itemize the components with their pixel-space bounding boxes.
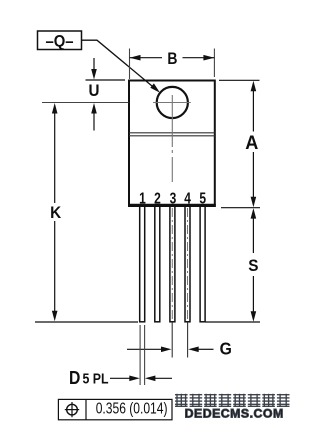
mounting hole <box>157 87 188 118</box>
pin 1 lead <box>140 206 145 322</box>
extension line between A and S (at body bottom) <box>221 207 260 209</box>
watermark chinese characters (drawn as glyph blocks) <box>175 394 290 407</box>
svg-text:G: G <box>220 339 232 359</box>
svg-text:K: K <box>50 203 61 222</box>
tab separation line lower <box>129 135 215 137</box>
pin number 2 <box>154 189 161 207</box>
dimension G line left segment with right arrow <box>127 347 172 353</box>
dimension A line with arrows <box>251 81 257 208</box>
pin 3 lead <box>170 206 175 322</box>
dimension G line right segment with left arrow <box>188 347 213 353</box>
pin 4 lead <box>185 206 190 322</box>
svg-text:U: U <box>89 82 100 100</box>
pin 3 centerline (inside lead, below body) <box>171 208 173 321</box>
dimension A label <box>245 131 258 153</box>
pin 4 centerline (inside lead, below body) <box>187 208 189 321</box>
pin number 5 <box>199 189 206 207</box>
true position symbol <box>65 402 79 417</box>
hole vertical centerline (dash-dot down through body) <box>171 95 173 182</box>
dimension B extension line right <box>213 49 215 78</box>
dimension K line lower segment with down arrow <box>52 221 58 321</box>
dimension U label <box>89 82 100 100</box>
dimension B label <box>167 50 177 69</box>
dimension D extension line left (pin1 left edge) <box>139 325 141 385</box>
dimension B extension line left <box>129 49 131 80</box>
svg-text:5: 5 <box>199 189 206 207</box>
svg-text:DEDECMS.COM: DEDECMS.COM <box>185 407 284 421</box>
pin number 1 <box>139 189 146 207</box>
dimension B line and arrows <box>130 55 215 61</box>
dimension S label <box>248 256 258 275</box>
pin number 3 <box>170 189 177 207</box>
svg-text:A: A <box>245 131 258 153</box>
dimension D line with arrows <box>110 376 172 382</box>
datum Q label box <box>38 31 82 51</box>
svg-text:D: D <box>69 367 80 389</box>
dimension S line with arrows <box>251 208 257 322</box>
svg-text:–Q–: –Q– <box>45 33 73 51</box>
hole center extension line (left, for U and K) <box>42 102 129 104</box>
dimension U lower arrow (up) <box>91 103 97 131</box>
package body outline <box>128 81 216 207</box>
feature control frame box <box>58 399 172 419</box>
svg-text:5 PL: 5 PL <box>83 371 109 387</box>
svg-text:0.356 (0.014): 0.356 (0.014) <box>96 399 168 417</box>
svg-text:1: 1 <box>139 189 146 207</box>
pin 4 centerline extension below tips <box>187 322 189 358</box>
dimension U top tick line <box>86 79 126 81</box>
svg-text:3: 3 <box>170 189 177 207</box>
dimension G label <box>220 339 232 359</box>
svg-text:2: 2 <box>154 189 161 207</box>
dimension K line upper segment with up arrow <box>52 103 58 203</box>
watermark dedecms.com text <box>185 407 284 421</box>
dimension A extension line top <box>219 79 260 81</box>
pin tips extension line right segment <box>206 321 261 323</box>
hole horizontal crosshair <box>153 102 191 104</box>
pin 2 lead <box>155 206 160 322</box>
tab separation line upper <box>129 132 215 134</box>
pin 5 lead <box>200 206 205 322</box>
dimension K label <box>50 203 61 222</box>
datum Q leader line with arrowhead to hole <box>82 40 161 92</box>
svg-text:4: 4 <box>184 189 191 207</box>
svg-text:S: S <box>248 256 258 275</box>
tolerance value text <box>96 399 168 417</box>
pin 3 centerline extension below tips <box>171 322 173 358</box>
dimension D extension line right (pin1 right edge) <box>144 325 146 385</box>
dimension U upper arrow (down) <box>91 58 97 80</box>
svg-text:B: B <box>167 50 177 69</box>
pin number 4 <box>184 189 191 207</box>
pin tips extension line left segment <box>35 321 138 323</box>
dimension D label <box>69 367 109 389</box>
